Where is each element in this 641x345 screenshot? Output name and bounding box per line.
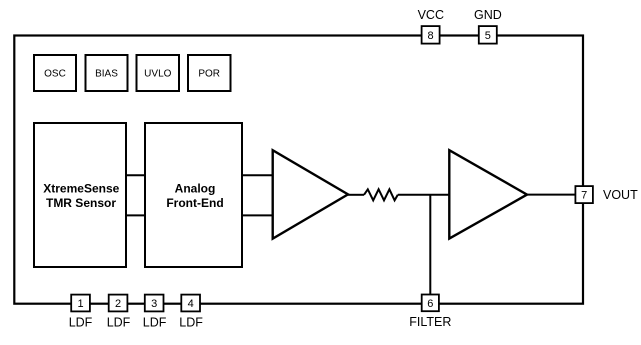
svg-text:LDF: LDF bbox=[179, 315, 203, 329]
svg-text:5: 5 bbox=[485, 30, 491, 42]
op-amp A1 bbox=[273, 150, 348, 238]
svg-text:VCC: VCC bbox=[418, 8, 444, 22]
svg-text:BIAS: BIAS bbox=[95, 69, 118, 80]
svg-text:LDF: LDF bbox=[143, 315, 167, 329]
svg-text:LDF: LDF bbox=[69, 315, 93, 329]
wire: op-amp A2 output to pin 7 bbox=[527, 194, 576, 196]
pin 3 LDF bbox=[143, 295, 167, 330]
OSC block bbox=[34, 55, 76, 91]
BIAS block bbox=[86, 55, 128, 91]
wire: filter node down to pin 6 bbox=[429, 195, 431, 295]
svg-text:GND: GND bbox=[474, 8, 502, 22]
svg-text:TMR Sensor: TMR Sensor bbox=[46, 196, 116, 210]
svg-text:OSC: OSC bbox=[44, 69, 66, 80]
wire: sensor to front-end (upper) bbox=[126, 174, 145, 176]
svg-text:7: 7 bbox=[581, 190, 587, 202]
wire: resistor to op-amp A2 bbox=[398, 194, 450, 196]
svg-text:UVLO: UVLO bbox=[144, 69, 171, 80]
svg-text:Front-End: Front-End bbox=[166, 196, 223, 210]
svg-text:VOUT: VOUT bbox=[603, 188, 638, 202]
XtremeSense TMR Sensor block bbox=[34, 123, 126, 267]
pin 4 LDF bbox=[179, 295, 203, 330]
pin 8 VCC bbox=[418, 8, 444, 43]
svg-text:8: 8 bbox=[428, 30, 434, 42]
pin 1 LDF bbox=[69, 295, 93, 330]
resistor R1 bbox=[364, 189, 398, 200]
svg-text:XtremeSense: XtremeSense bbox=[43, 182, 119, 196]
svg-text:6: 6 bbox=[427, 298, 433, 310]
wire: sensor to front-end (lower) bbox=[126, 214, 145, 216]
svg-text:1: 1 bbox=[78, 298, 84, 310]
pin 7 VOUT bbox=[575, 186, 638, 203]
pin 6 FILTER bbox=[409, 295, 451, 329]
Analog Front-End block bbox=[145, 123, 242, 267]
pin 2 LDF bbox=[107, 295, 131, 330]
IC boundary bbox=[14, 36, 583, 304]
op-amp A2 bbox=[449, 150, 527, 238]
svg-text:2: 2 bbox=[115, 298, 121, 310]
pin 5 GND bbox=[474, 8, 502, 43]
wire: op-amp A1 output to resistor bbox=[348, 194, 364, 196]
svg-text:Analog: Analog bbox=[175, 182, 216, 196]
svg-text:3: 3 bbox=[151, 298, 157, 310]
svg-text:LDF: LDF bbox=[107, 315, 131, 329]
svg-text:POR: POR bbox=[198, 69, 220, 80]
svg-text:FILTER: FILTER bbox=[409, 315, 451, 329]
svg-text:4: 4 bbox=[188, 298, 194, 310]
POR block bbox=[188, 55, 231, 91]
UVLO block bbox=[137, 55, 180, 91]
wire: front-end to op-amp A1 (lower) bbox=[242, 214, 273, 216]
wire: front-end to op-amp A1 (upper) bbox=[242, 174, 273, 176]
